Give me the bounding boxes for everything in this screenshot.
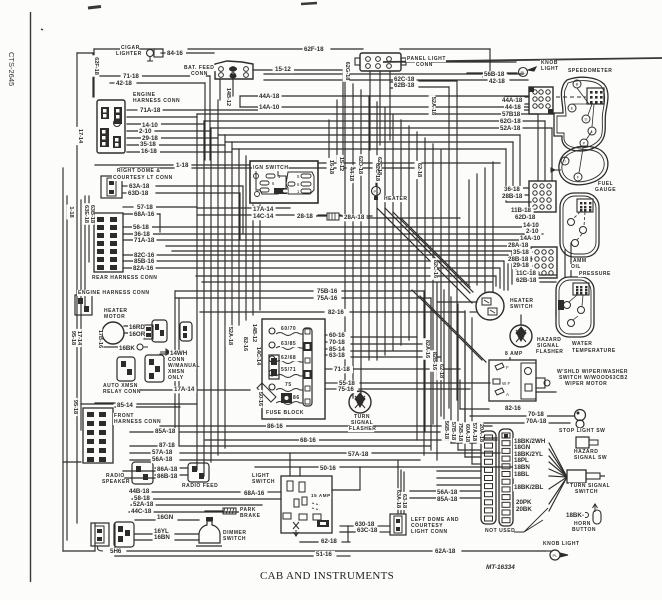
svg-text:75: 75 bbox=[285, 382, 292, 388]
svg-text:62B-18: 62B-18 bbox=[394, 82, 415, 89]
svg-text:62F-18: 62F-18 bbox=[304, 46, 324, 53]
svg-text:2-10: 2-10 bbox=[526, 228, 539, 235]
svg-text:62G-18: 62G-18 bbox=[344, 62, 350, 81]
svg-text:28-18: 28-18 bbox=[297, 213, 313, 220]
svg-text:51-16: 51-16 bbox=[316, 551, 332, 558]
svg-text:BUTTON: BUTTON bbox=[572, 527, 596, 533]
svg-text:16GN: 16GN bbox=[157, 514, 174, 521]
svg-text:70-18: 70-18 bbox=[329, 339, 345, 346]
svg-text:63-18: 63-18 bbox=[401, 494, 407, 508]
svg-text:16BK: 16BK bbox=[119, 345, 135, 352]
svg-text:WIPER MOTOR: WIPER MOTOR bbox=[565, 381, 607, 387]
svg-text:CTS-2645: CTS-2645 bbox=[7, 52, 16, 86]
svg-text:50-16: 50-16 bbox=[257, 392, 263, 406]
svg-text:14B-12: 14B-12 bbox=[251, 324, 257, 342]
svg-text:63C-18: 63C-18 bbox=[357, 527, 378, 534]
svg-text:ENGINE HARNESS CONN: ENGINE HARNESS CONN bbox=[78, 290, 150, 296]
svg-text:86-16: 86-16 bbox=[267, 423, 283, 430]
svg-text:68A-16: 68A-16 bbox=[244, 490, 265, 497]
svg-text:RELAY CONN: RELAY CONN bbox=[103, 389, 141, 395]
svg-text:63A-18: 63A-18 bbox=[395, 490, 401, 508]
svg-text:16-18: 16-18 bbox=[141, 148, 157, 155]
svg-text:56B-18: 56B-18 bbox=[484, 71, 505, 78]
svg-text:COURTESY LT CONN: COURTESY LT CONN bbox=[113, 175, 173, 181]
svg-text:68-16: 68-16 bbox=[300, 437, 316, 444]
svg-text:CAB AND INSTRUMENTS: CAB AND INSTRUMENTS bbox=[260, 570, 394, 582]
svg-text:16BN: 16BN bbox=[154, 534, 170, 541]
svg-text:17B-16: 17B-16 bbox=[97, 330, 103, 348]
svg-text:42-18: 42-18 bbox=[489, 78, 505, 85]
svg-text:CONN: CONN bbox=[191, 71, 208, 77]
svg-text:82B-16: 82B-16 bbox=[431, 352, 437, 370]
svg-text:RIGHT DOME &: RIGHT DOME & bbox=[117, 168, 161, 174]
svg-text:IGN SWITCH: IGN SWITCH bbox=[253, 165, 289, 171]
svg-text:75-16: 75-16 bbox=[338, 386, 354, 393]
svg-text:17A-14: 17A-14 bbox=[174, 386, 195, 393]
svg-text:SWITCH: SWITCH bbox=[575, 489, 598, 495]
svg-text:44-18: 44-18 bbox=[348, 167, 354, 181]
svg-text:62/68: 62/68 bbox=[281, 355, 296, 361]
svg-text:36-18: 36-18 bbox=[504, 186, 520, 193]
svg-text:62F-18: 62F-18 bbox=[93, 57, 99, 75]
svg-text:18BK-: 18BK- bbox=[566, 512, 584, 519]
svg-text:60A-18: 60A-18 bbox=[464, 424, 470, 442]
svg-text:BRAKE: BRAKE bbox=[240, 513, 261, 519]
svg-text:57B-18: 57B-18 bbox=[450, 422, 456, 440]
svg-text:71A-18: 71A-18 bbox=[134, 237, 155, 244]
svg-text:D: D bbox=[585, 117, 588, 122]
svg-text:68A-16: 68A-16 bbox=[134, 211, 155, 218]
svg-text:FLASHER: FLASHER bbox=[349, 426, 376, 432]
svg-text:62A-18: 62A-18 bbox=[435, 548, 456, 555]
svg-text:14WH: 14WH bbox=[170, 350, 188, 357]
svg-text:HARNESS CONN: HARNESS CONN bbox=[114, 419, 161, 425]
svg-text:8 AMP: 8 AMP bbox=[505, 351, 523, 357]
svg-text:F: F bbox=[506, 365, 509, 370]
svg-text:1-18: 1-18 bbox=[176, 162, 189, 169]
svg-text:85-14: 85-14 bbox=[117, 402, 133, 409]
svg-text:62-18: 62-18 bbox=[416, 163, 422, 177]
svg-text:56A-18: 56A-18 bbox=[152, 456, 173, 463]
svg-text:14A-10: 14A-10 bbox=[259, 104, 280, 111]
svg-text:63E-18: 63E-18 bbox=[83, 205, 89, 223]
svg-text:28A-18: 28A-18 bbox=[344, 214, 365, 221]
svg-text:82-16: 82-16 bbox=[242, 337, 248, 351]
svg-text:62-18: 62-18 bbox=[321, 538, 337, 545]
svg-text:MT-16334: MT-16334 bbox=[486, 564, 515, 571]
svg-text:E: E bbox=[571, 106, 574, 111]
svg-text:82A-16: 82A-16 bbox=[133, 265, 154, 272]
svg-text:17-14: 17-14 bbox=[76, 331, 82, 346]
svg-text:52A-18: 52A-18 bbox=[133, 501, 154, 508]
svg-text:17-14: 17-14 bbox=[77, 129, 83, 144]
svg-text:70-18: 70-18 bbox=[528, 411, 544, 418]
svg-text:16-18: 16-18 bbox=[328, 160, 334, 174]
svg-text:W F: W F bbox=[502, 381, 510, 386]
svg-text:15 AMP: 15 AMP bbox=[311, 493, 331, 498]
svg-text:70A-18: 70A-18 bbox=[526, 418, 547, 425]
svg-text:85A-18: 85A-18 bbox=[437, 496, 458, 503]
svg-text:18BL: 18BL bbox=[514, 471, 529, 478]
svg-text:15-12: 15-12 bbox=[338, 157, 344, 171]
svg-text:PL: PL bbox=[374, 189, 380, 194]
svg-text:KNOB LIGHT: KNOB LIGHT bbox=[543, 541, 580, 547]
svg-text:86: 86 bbox=[293, 395, 300, 401]
svg-text:44A-18: 44A-18 bbox=[259, 93, 280, 100]
svg-text:I: I bbox=[564, 159, 565, 164]
svg-text:18PL: 18PL bbox=[514, 457, 529, 464]
svg-text:82A-16: 82A-16 bbox=[424, 340, 430, 358]
svg-text:14C-14: 14C-14 bbox=[255, 347, 261, 366]
svg-text:1-18: 1-18 bbox=[68, 206, 74, 217]
svg-text:75B-16: 75B-16 bbox=[317, 288, 338, 295]
svg-text:FLASHER: FLASHER bbox=[536, 349, 563, 355]
svg-text:44B-18: 44B-18 bbox=[129, 488, 150, 495]
svg-text:85A-18: 85A-18 bbox=[155, 428, 176, 435]
svg-text:95-18: 95-18 bbox=[72, 400, 78, 414]
svg-text:62G-18: 62G-18 bbox=[500, 118, 521, 125]
svg-text:NOT USED: NOT USED bbox=[485, 528, 515, 534]
svg-text:SWITCH: SWITCH bbox=[510, 304, 533, 310]
svg-text:WATER: WATER bbox=[572, 341, 592, 347]
svg-text:P: P bbox=[583, 141, 586, 146]
svg-text:STOP LIGHT SW: STOP LIGHT SW bbox=[559, 428, 605, 434]
svg-text:52A-18: 52A-18 bbox=[500, 125, 521, 132]
svg-text:82-16: 82-16 bbox=[505, 405, 521, 412]
svg-text:RADIO FEED: RADIO FEED bbox=[182, 483, 218, 489]
svg-text:75A-16: 75A-16 bbox=[317, 295, 338, 302]
svg-text:14C-14: 14C-14 bbox=[253, 213, 274, 220]
svg-text:57-18: 57-18 bbox=[137, 204, 153, 211]
svg-text:63-18: 63-18 bbox=[329, 352, 345, 359]
svg-text:44-18: 44-18 bbox=[505, 104, 521, 111]
svg-text:82C-16: 82C-16 bbox=[432, 260, 438, 278]
svg-text:62D-18: 62D-18 bbox=[515, 214, 536, 221]
svg-text:75B-18: 75B-18 bbox=[457, 423, 463, 441]
svg-text:HEATER: HEATER bbox=[384, 196, 408, 202]
svg-text:20A-18: 20A-18 bbox=[478, 424, 484, 442]
svg-text:63D-18: 63D-18 bbox=[128, 190, 149, 197]
svg-text:57A-18: 57A-18 bbox=[152, 449, 173, 456]
svg-text:71A-18: 71A-18 bbox=[140, 107, 161, 114]
svg-text:GAUGE: GAUGE bbox=[595, 187, 616, 193]
svg-text:87-18: 87-18 bbox=[159, 442, 175, 449]
svg-text:44C-18: 44C-18 bbox=[131, 508, 152, 515]
svg-text:71-18: 71-18 bbox=[334, 366, 350, 373]
svg-text:16RD: 16RD bbox=[129, 324, 145, 331]
svg-text:52A-18: 52A-18 bbox=[227, 327, 233, 345]
svg-text:57A-18: 57A-18 bbox=[348, 451, 369, 458]
svg-text:A: A bbox=[506, 392, 509, 397]
svg-text:PL: PL bbox=[521, 70, 527, 75]
svg-text:60-16: 60-16 bbox=[329, 332, 345, 339]
svg-text:MOTOR: MOTOR bbox=[104, 314, 125, 320]
svg-text:62C-18: 62C-18 bbox=[374, 163, 380, 181]
svg-text:PL: PL bbox=[553, 553, 559, 558]
svg-text:62B-18: 62B-18 bbox=[516, 277, 537, 284]
svg-text:HARNESS CONN: HARNESS CONN bbox=[133, 98, 180, 104]
svg-text:17A-14: 17A-14 bbox=[253, 206, 274, 213]
svg-text:ONLY: ONLY bbox=[168, 375, 184, 381]
svg-text:35-18: 35-18 bbox=[513, 249, 529, 256]
svg-text:18BN: 18BN bbox=[514, 464, 530, 471]
svg-text:57A-18: 57A-18 bbox=[471, 423, 477, 441]
svg-text:84-16: 84-16 bbox=[167, 50, 183, 57]
svg-text:15-12: 15-12 bbox=[275, 66, 291, 73]
svg-text:OIL: OIL bbox=[571, 264, 581, 270]
svg-text:SWITCH: SWITCH bbox=[223, 536, 246, 542]
svg-text:63/85: 63/85 bbox=[281, 341, 296, 347]
svg-text:52A-18: 52A-18 bbox=[430, 97, 436, 115]
svg-text:86B-18: 86B-18 bbox=[157, 473, 178, 480]
svg-text:LIGHT CONN: LIGHT CONN bbox=[411, 529, 448, 535]
svg-text:60/70: 60/70 bbox=[281, 326, 296, 332]
svg-text:REAR HARNESS CONN: REAR HARNESS CONN bbox=[92, 275, 157, 281]
svg-text:LIGHT: LIGHT bbox=[541, 66, 559, 72]
svg-text:FUSE BLOCK: FUSE BLOCK bbox=[266, 410, 304, 416]
svg-text:11B-18: 11B-18 bbox=[511, 207, 532, 214]
svg-text:56B-18: 56B-18 bbox=[443, 421, 449, 439]
svg-text:18BK/2BL: 18BK/2BL bbox=[514, 484, 543, 491]
svg-text:SPEEDOMETER: SPEEDOMETER bbox=[568, 68, 612, 74]
svg-text:2-10: 2-10 bbox=[139, 128, 152, 135]
svg-text:11C-18: 11C-18 bbox=[516, 270, 537, 277]
svg-text:PRESSURE: PRESSURE bbox=[579, 271, 611, 277]
svg-text:71-18: 71-18 bbox=[123, 73, 139, 80]
svg-text:14A-10: 14A-10 bbox=[520, 235, 541, 242]
svg-text:18GN: 18GN bbox=[514, 444, 531, 451]
svg-text:44A-18: 44A-18 bbox=[502, 97, 523, 104]
svg-text:55/71: 55/71 bbox=[281, 367, 296, 373]
svg-text:62D-18: 62D-18 bbox=[357, 156, 363, 174]
svg-text:TEMPERATURE: TEMPERATURE bbox=[572, 348, 616, 354]
svg-text:85B-16: 85B-16 bbox=[134, 258, 155, 265]
svg-text:57B18: 57B18 bbox=[502, 111, 521, 118]
svg-text:56A-18: 56A-18 bbox=[437, 489, 458, 496]
svg-text:28A-18: 28A-18 bbox=[508, 242, 529, 249]
svg-text:20PK: 20PK bbox=[516, 499, 532, 506]
svg-text:62-18: 62-18 bbox=[438, 364, 444, 378]
svg-text:63A-18: 63A-18 bbox=[129, 183, 150, 190]
svg-text:CONN: CONN bbox=[416, 62, 433, 68]
svg-text:SPEAKER: SPEAKER bbox=[102, 479, 130, 485]
svg-text:28B-18: 28B-18 bbox=[502, 193, 523, 200]
svg-text:86A-18: 86A-18 bbox=[157, 466, 178, 473]
svg-text:20BK: 20BK bbox=[516, 506, 532, 513]
svg-text:82-16: 82-16 bbox=[328, 309, 344, 316]
svg-text:29-18: 29-18 bbox=[513, 262, 529, 269]
svg-text:50-16: 50-16 bbox=[320, 465, 336, 472]
svg-text:95-18: 95-18 bbox=[70, 331, 76, 345]
svg-text:35-18: 35-18 bbox=[140, 141, 156, 148]
svg-text:63B-18: 63B-18 bbox=[89, 205, 95, 223]
svg-text:SIGNAL SW: SIGNAL SW bbox=[574, 455, 607, 461]
svg-text:5H6: 5H6 bbox=[110, 548, 122, 555]
svg-text:14B-12: 14B-12 bbox=[225, 88, 231, 106]
svg-text:16OR: 16OR bbox=[129, 331, 146, 338]
svg-text:LIGHTER: LIGHTER bbox=[116, 51, 142, 57]
svg-text:56-18: 56-18 bbox=[133, 224, 149, 231]
svg-text:SWITCH: SWITCH bbox=[252, 479, 275, 485]
svg-text:B: B bbox=[576, 82, 579, 87]
svg-text:42-18: 42-18 bbox=[116, 80, 132, 87]
